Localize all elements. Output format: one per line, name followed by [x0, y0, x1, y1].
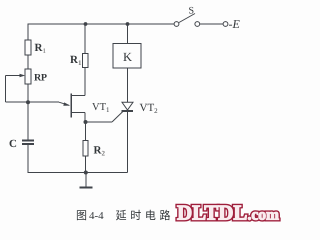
- switch S contacts and blade: [174, 14, 200, 27]
- thyristor VT2 cathode lead: [122, 111, 134, 173]
- svg-text:R1: R1: [35, 42, 47, 55]
- svg-text:S: S: [189, 6, 195, 17]
- resistor R2: [83, 122, 88, 173]
- potentiometer RP body: [25, 69, 31, 84]
- ground: [80, 173, 93, 189]
- wire RP wiper loop: [6, 76, 29, 103]
- resistor R1: [25, 40, 31, 55]
- wire bottom rail: [28, 172, 128, 174]
- node top-R1mid: [84, 22, 88, 26]
- svg-text:DLTDL.com: DLTDL.com: [177, 201, 279, 225]
- RP wiper arrowhead: [20, 74, 26, 78]
- wire R1mid to UJT B2: [84, 68, 86, 96]
- wire C to bottom rail: [27, 145, 29, 173]
- wire switch to supply: [200, 23, 223, 25]
- svg-text:-E: -E: [229, 17, 241, 31]
- node UJT B1 / gate: [84, 120, 88, 124]
- wire top rail: [28, 23, 175, 25]
- svg-text:VT2: VT2: [140, 102, 159, 115]
- resistor R1mid: [82, 54, 88, 68]
- svg-text:R2: R2: [94, 145, 106, 158]
- wire VT1 base1 lead: [72, 113, 85, 123]
- caption figure 4-4: [76, 207, 174, 223]
- logo DLTDL.com: [177, 201, 279, 225]
- wire RP to C: [27, 84, 29, 140]
- wire R1 to RP: [27, 55, 29, 69]
- terminal -E circle: [223, 22, 228, 27]
- svg-text:R1: R1: [70, 54, 82, 67]
- wire emitter from RP node: [28, 101, 59, 103]
- wire gate slanted segment: [112, 111, 124, 122]
- svg-text:C: C: [9, 138, 17, 150]
- VT1 emitter arrowhead: [63, 102, 70, 105]
- transistor VT1 bar: [70, 94, 72, 118]
- node bottom-R2: [84, 171, 88, 175]
- svg-text:RP: RP: [34, 73, 47, 84]
- wire left vertical top: [27, 24, 29, 40]
- svg-text:VT1: VT1: [92, 102, 110, 114]
- svg-text:K: K: [123, 50, 132, 64]
- relay K: [113, 24, 141, 102]
- wire gate horizontal: [86, 121, 113, 123]
- wire emitter slanted segment: [59, 102, 69, 105]
- thyristor VT2 triangle: [122, 102, 133, 110]
- node top-K: [126, 22, 130, 26]
- capacitor C plates: [22, 140, 34, 145]
- node RP-wiper-emitter: [26, 100, 30, 104]
- wire top rail to R1mid: [84, 24, 86, 54]
- wire VT1 base2 lead: [72, 95, 85, 97]
